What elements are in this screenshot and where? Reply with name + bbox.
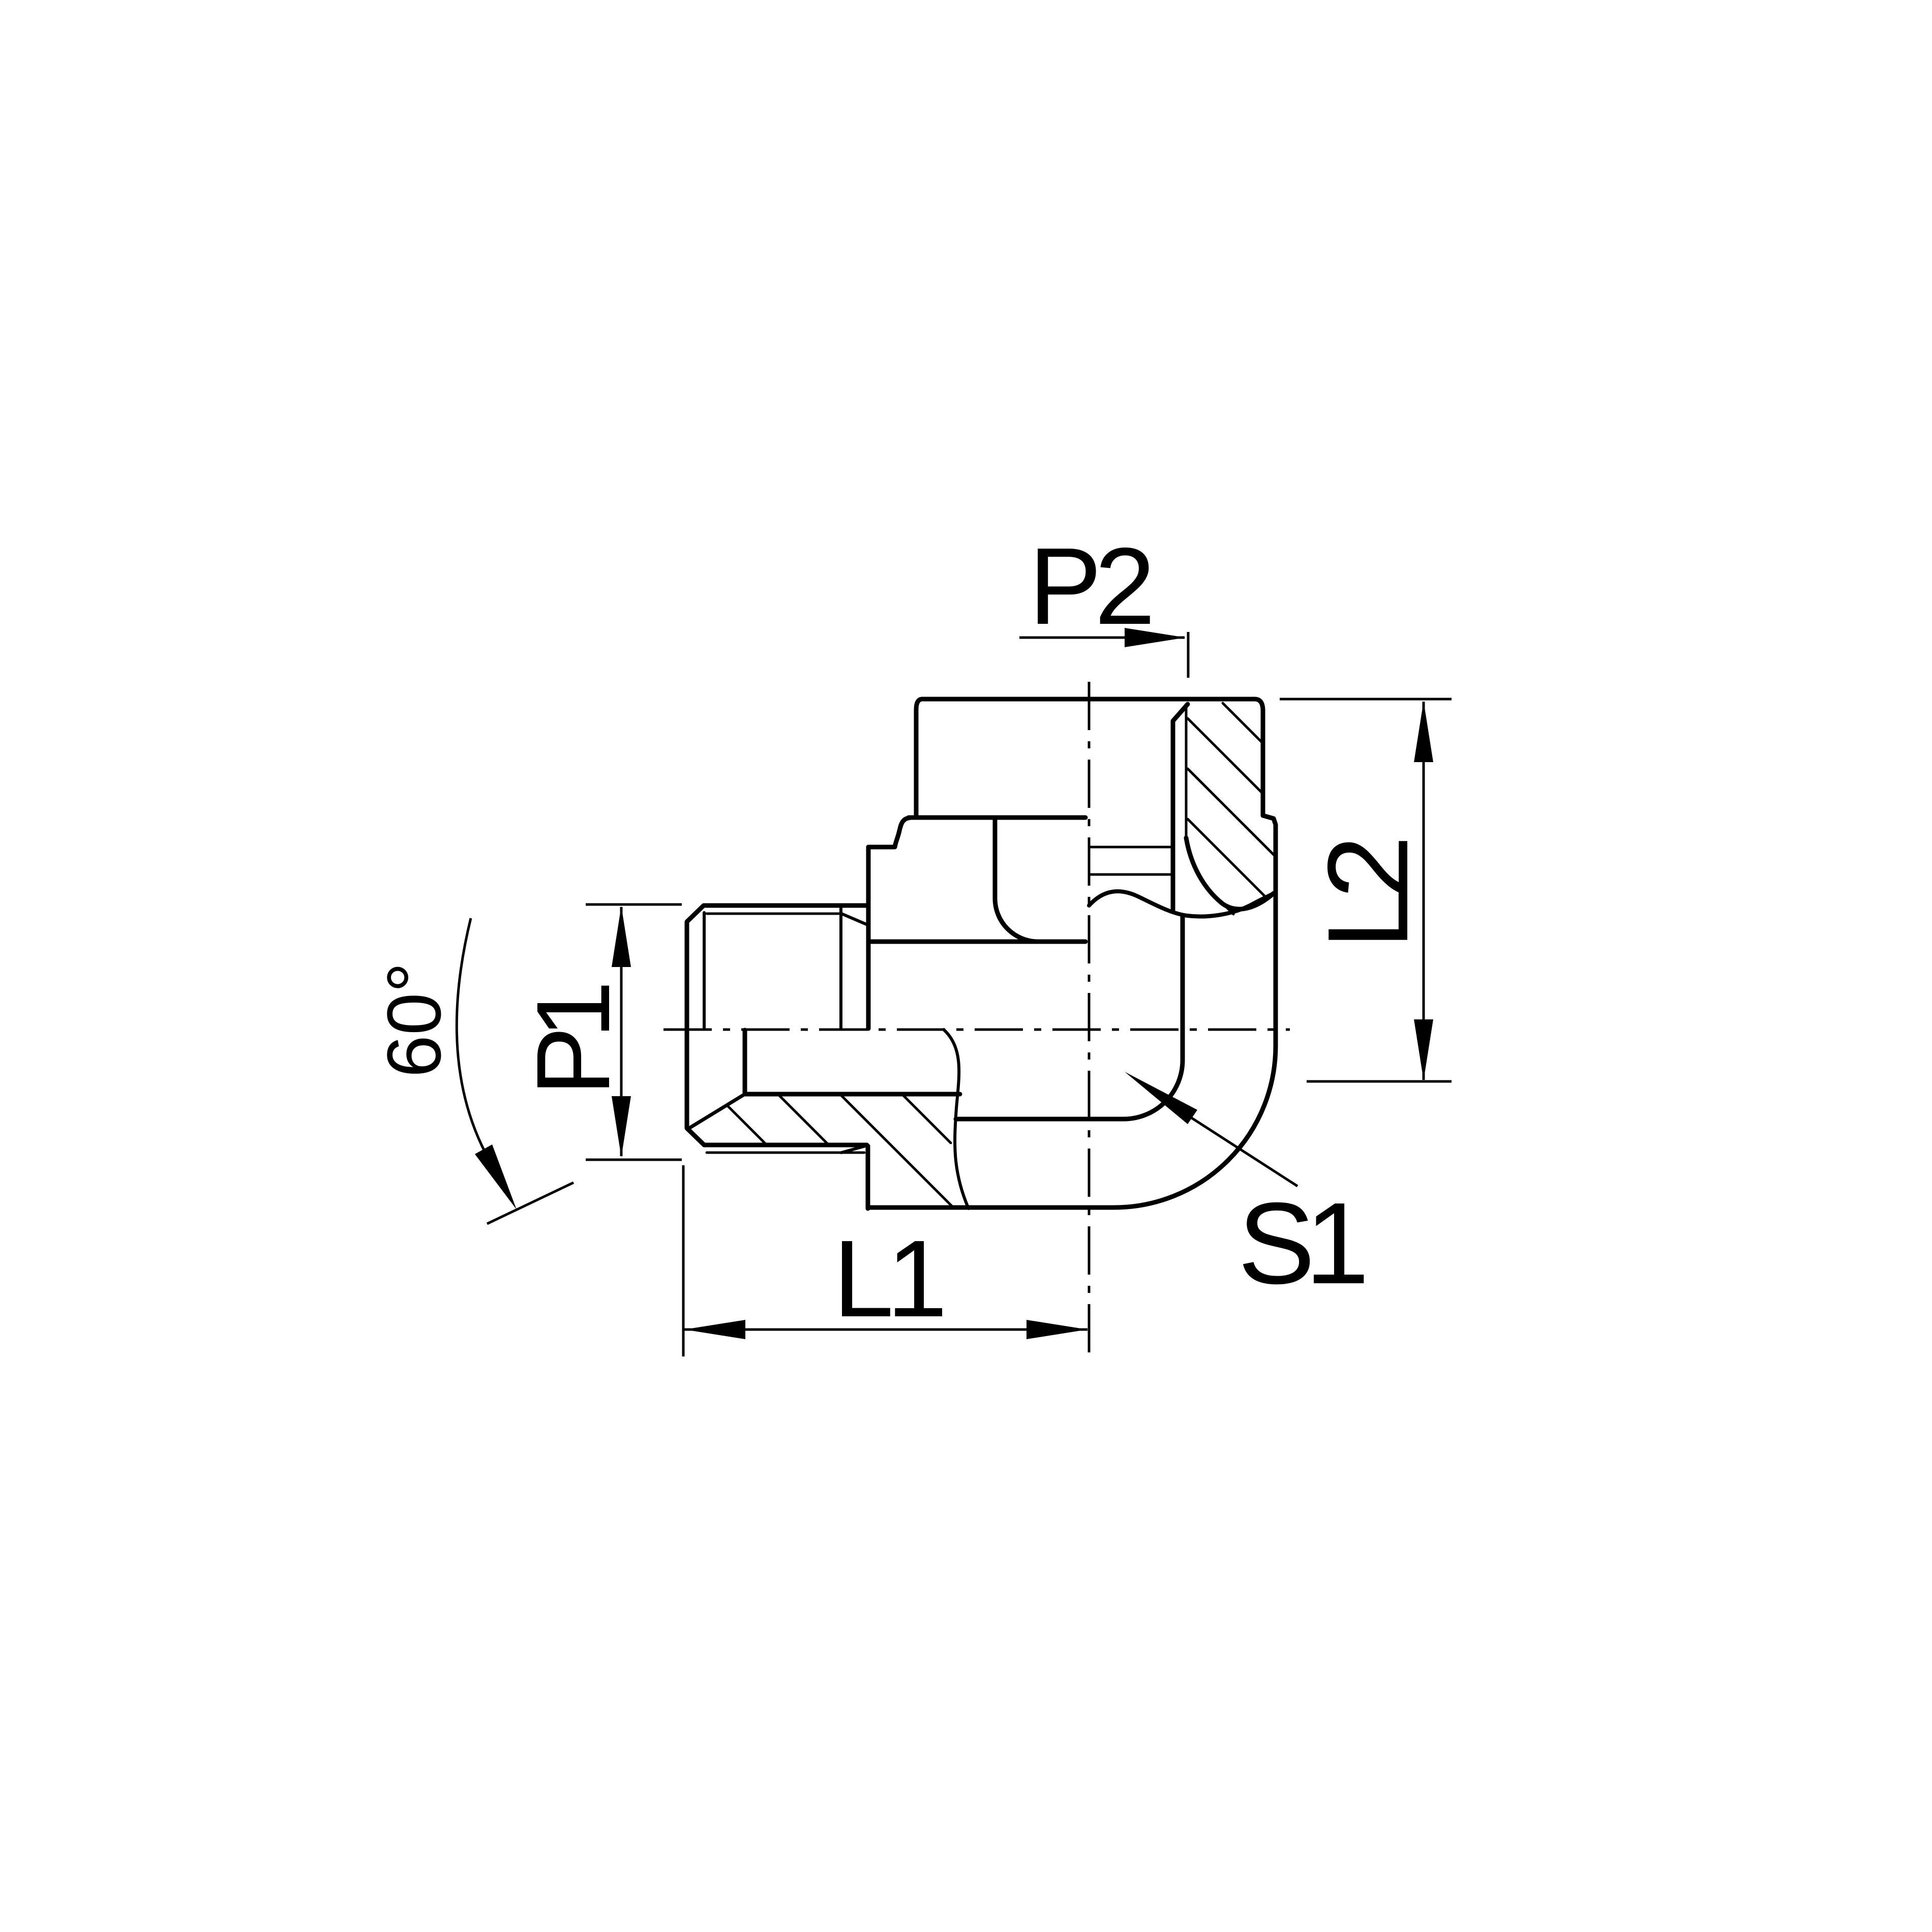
svg-text:L2: L2 [1304, 841, 1432, 949]
svg-text:S1: S1 [1238, 1179, 1364, 1308]
svg-text:L1: L1 [833, 1217, 943, 1340]
svg-text:P2: P2 [1029, 525, 1150, 647]
svg-text:60°: 60° [371, 962, 457, 1078]
svg-text:P1: P1 [515, 986, 631, 1096]
